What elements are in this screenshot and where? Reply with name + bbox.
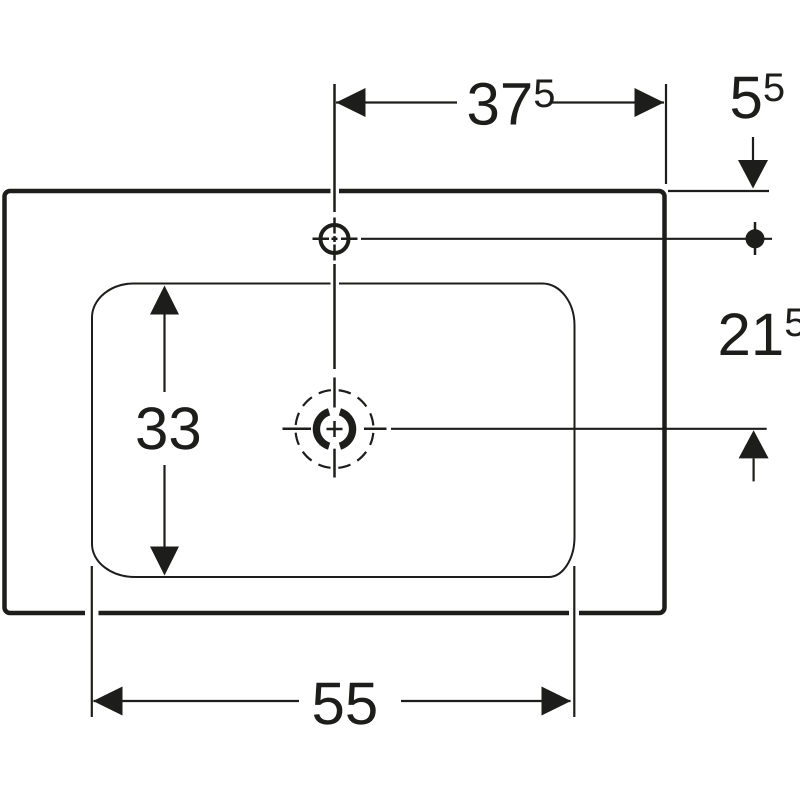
dim 21.5 label xyxy=(721,308,800,355)
vertical centerline through faucet and drain xyxy=(333,84,336,478)
dim 55 left arrow xyxy=(93,687,123,716)
gap in basin top edge at centerline xyxy=(331,281,340,286)
drain center cross horizontal xyxy=(327,428,343,431)
dim 37.5 left arrow xyxy=(336,88,366,117)
dim 33 line upper segment xyxy=(163,315,165,393)
dim 33 down arrow xyxy=(150,547,179,576)
drain line to right arrow xyxy=(391,428,767,430)
gap in outer top edge at centerline xyxy=(331,188,340,195)
drain horizontal centerline marks xyxy=(283,428,387,431)
dim 55 label xyxy=(314,683,376,725)
gap in outer bottom edge right xyxy=(569,610,579,617)
dim 55 right arrow xyxy=(542,687,572,716)
dim 37.5 right arrow xyxy=(635,88,665,117)
basin inner outline xyxy=(92,284,575,578)
outer washbasin outline xyxy=(5,191,665,613)
drain dashed circle xyxy=(296,390,374,468)
dim 5.5 down arrow xyxy=(738,160,768,189)
top edge extension line xyxy=(668,190,769,192)
dim 33 up arrow xyxy=(150,286,179,315)
drain thick ring right arc xyxy=(340,412,353,446)
dim 37.5 extension line right xyxy=(665,84,667,184)
datum dot tick xyxy=(754,222,757,255)
dim 37.5 label xyxy=(469,79,554,125)
dim 5.5 arrow tail xyxy=(752,137,754,161)
drain thick ring left arc xyxy=(316,412,329,446)
gap in outer bottom edge left xyxy=(85,610,99,617)
faucet line to right datum dot xyxy=(361,238,772,240)
dim 37.5 line left segment xyxy=(336,101,457,103)
dim 55 extension line right xyxy=(573,566,575,717)
horizontal centerline marks at faucet xyxy=(313,238,358,241)
datum dot xyxy=(746,229,765,248)
dim 5.5 label xyxy=(732,73,784,118)
dim 21.5 arrow tail xyxy=(752,458,754,481)
dim 55 line left segment xyxy=(94,700,300,702)
dim 33 line lower segment xyxy=(163,465,165,547)
dim 21.5 up arrow xyxy=(739,430,769,458)
dim 55 extension line left xyxy=(91,566,93,717)
dim 37.5 line right segment xyxy=(552,101,664,103)
faucet hole circle xyxy=(321,225,349,253)
dim 33 label xyxy=(137,407,199,449)
dim 55 line right segment xyxy=(401,700,571,702)
